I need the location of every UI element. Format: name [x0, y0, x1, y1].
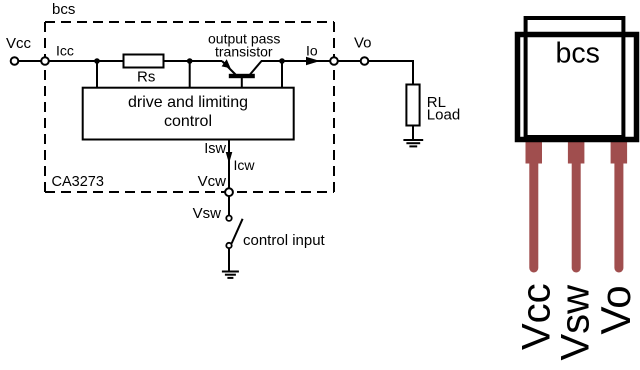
- svg-text:Vcc: Vcc: [515, 283, 559, 350]
- svg-text:Rs: Rs: [137, 69, 155, 86]
- terminal Vcc: [11, 57, 19, 65]
- package lead Vcc: [526, 138, 543, 164]
- transistor Q1 emitter line: [222, 61, 236, 75]
- junction dot left of Rs: [94, 58, 100, 64]
- svg-text:Vo: Vo: [354, 35, 372, 52]
- svg-text:CA3273: CA3273: [52, 174, 104, 190]
- svg-text:Vo: Vo: [592, 285, 639, 334]
- svg-text:Icc: Icc: [56, 43, 74, 59]
- svg-text:bcs: bcs: [52, 1, 75, 18]
- resistor Rs: [124, 55, 164, 68]
- wire Rs to transistor: [164, 60, 223, 62]
- wire boundary to Vo terminal: [338, 60, 361, 62]
- wire load to ground: [412, 126, 414, 140]
- wire Vcw to Vsw: [228, 196, 230, 215]
- wire junction down to control box: [96, 61, 98, 88]
- svg-text:transistor: transistor: [215, 44, 273, 60]
- wire junction down to control box: [281, 61, 283, 88]
- ground under RL: [403, 139, 423, 141]
- junction dot collector: [279, 58, 285, 64]
- wire Vo to load: [368, 61, 413, 85]
- block drive and limiting control: [83, 88, 294, 140]
- package body: [518, 35, 637, 140]
- transistor Q1 emitter arrow: [222, 59, 231, 68]
- ground under switch: [222, 271, 239, 273]
- svg-text:Vcc: Vcc: [6, 35, 32, 52]
- svg-text:Load: Load: [427, 107, 460, 124]
- svg-text:control input: control input: [243, 232, 326, 249]
- svg-text:Icw: Icw: [234, 157, 256, 173]
- wire Vcc to boundary: [18, 60, 41, 62]
- svg-text:Vsw: Vsw: [554, 285, 598, 361]
- switch contact lower: [226, 243, 231, 248]
- terminal Vo: [361, 57, 369, 65]
- transistor Q1 base wire to control box: [241, 78, 243, 88]
- transistor Q1 base bar: [229, 74, 255, 78]
- wire control box down to Vcw: [228, 140, 230, 189]
- package lead Vsw: [568, 138, 585, 164]
- svg-text:control: control: [164, 113, 212, 130]
- svg-text:Isw: Isw: [204, 141, 226, 157]
- wire switch to ground: [228, 248, 230, 271]
- svg-text:drive and limiting: drive and limiting: [128, 94, 248, 111]
- svg-text:Io: Io: [306, 43, 318, 59]
- switch blade: [232, 219, 243, 244]
- package tab rectangle: [526, 18, 624, 137]
- current arrow Io: [306, 57, 320, 65]
- wire collector to output: [261, 60, 331, 62]
- terminal on boundary (Vo pin): [330, 57, 338, 65]
- junction dot right of Rs: [187, 58, 193, 64]
- terminal Vcw on boundary: [225, 188, 233, 196]
- dashed boundary box bcs/CA3273: [45, 22, 334, 192]
- svg-text:bcs: bcs: [556, 38, 600, 70]
- wire junction down to control box: [189, 61, 191, 88]
- terminal on boundary (Vcc pin): [41, 57, 49, 65]
- wire boundary to Rs: [49, 60, 124, 62]
- svg-text:Vsw: Vsw: [193, 205, 222, 222]
- transistor Q1 collector line: [250, 61, 262, 75]
- package lead Vo: [611, 138, 628, 164]
- current arrow Icw: [226, 152, 233, 164]
- svg-text:Vcw: Vcw: [198, 173, 227, 190]
- resistor RL load: [406, 85, 419, 126]
- switch contact upper: [226, 216, 231, 221]
